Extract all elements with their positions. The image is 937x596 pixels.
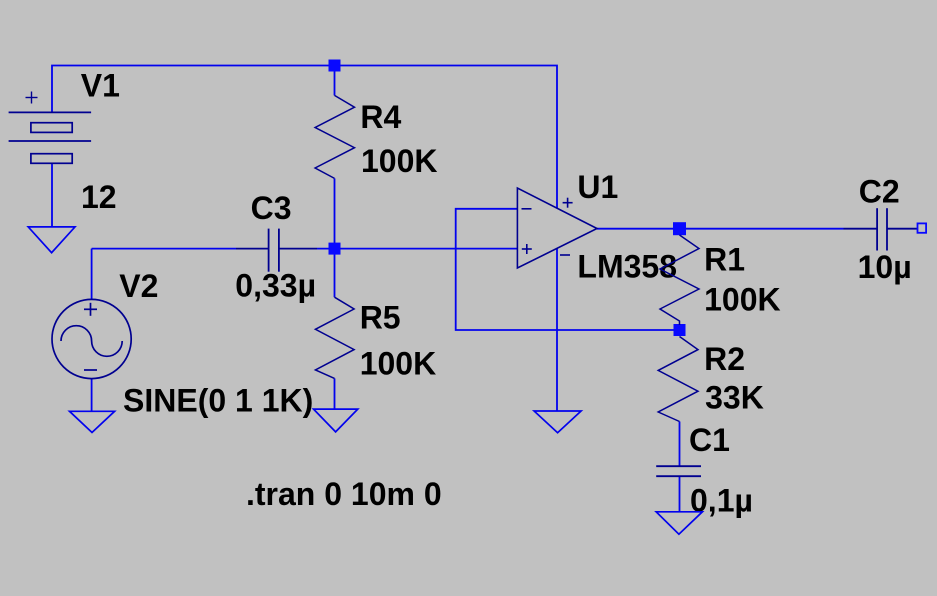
ground below C1 (656, 512, 702, 534)
svg-text:R1: R1 (704, 242, 745, 278)
svg-text:33K: 33K (705, 380, 764, 416)
resistor R2 (658, 337, 698, 422)
wire feedback loop to inverting input (456, 209, 680, 330)
wire R4 leads (334, 66, 336, 249)
wire node A to op-amp non-inverting input (335, 248, 518, 250)
wire V2 lead to ground (91, 379, 93, 412)
voltage source V2 (52, 299, 131, 378)
resistor R1 (660, 235, 699, 325)
svg-text:U1: U1 (577, 169, 618, 205)
svg-text:C1: C1 (689, 422, 730, 458)
capacitor C2 (844, 208, 918, 250)
node B junction output (673, 222, 686, 235)
wire top rail V1 to op-amp V+ (52, 66, 557, 209)
svg-text:100K: 100K (361, 143, 438, 179)
svg-text:R5: R5 (360, 300, 401, 336)
wire op-amp output to node B (597, 228, 680, 230)
svg-text:0,33µ: 0,33µ (235, 268, 316, 304)
svg-text:C3: C3 (251, 190, 292, 226)
wire op-amp V- to ground (556, 248, 558, 411)
svg-text:100K: 100K (704, 282, 781, 318)
capacitor C3 (236, 229, 317, 272)
wire C1 lead to ground (679, 476, 681, 512)
wire C3 to node A (317, 248, 335, 250)
svg-text:.tran 0 10m 0: .tran 0 10m 0 (246, 476, 442, 512)
ground below R5 (314, 409, 358, 432)
node junction R1/R2 feedback (674, 324, 686, 336)
svg-text:R2: R2 (704, 341, 745, 377)
svg-text:C2: C2 (859, 173, 900, 209)
svg-text:0,1µ: 0,1µ (690, 483, 753, 519)
output port terminal (918, 223, 927, 232)
svg-text:V2: V2 (119, 268, 158, 304)
battery V1 (9, 92, 92, 164)
svg-text:V1: V1 (81, 67, 120, 103)
svg-text:100K: 100K (360, 346, 437, 382)
capacitor C1 (656, 466, 701, 476)
wire V1 lead to ground (51, 163, 53, 227)
ground below V2 (70, 411, 115, 432)
svg-text:SINE(0 1 1K): SINE(0 1 1K) (123, 383, 313, 419)
wire R2 lead to C1 (679, 422, 681, 467)
wire node B to C2 (680, 228, 844, 230)
svg-text:R4: R4 (360, 99, 401, 135)
resistor R5 (315, 297, 354, 378)
wire R5 lead to ground (334, 249, 336, 410)
wire V2 to C3 (91, 249, 93, 300)
node A junction (329, 60, 341, 72)
resistor R4 (315, 95, 354, 178)
ground below V1 (28, 227, 75, 253)
op-amp U1 (517, 188, 597, 268)
svg-text:12: 12 (81, 179, 117, 215)
svg-text:LM358: LM358 (577, 249, 677, 285)
ground below op-amp (534, 411, 581, 433)
svg-text:10µ: 10µ (858, 249, 912, 285)
node junction C3/R4/R5 (329, 243, 341, 255)
